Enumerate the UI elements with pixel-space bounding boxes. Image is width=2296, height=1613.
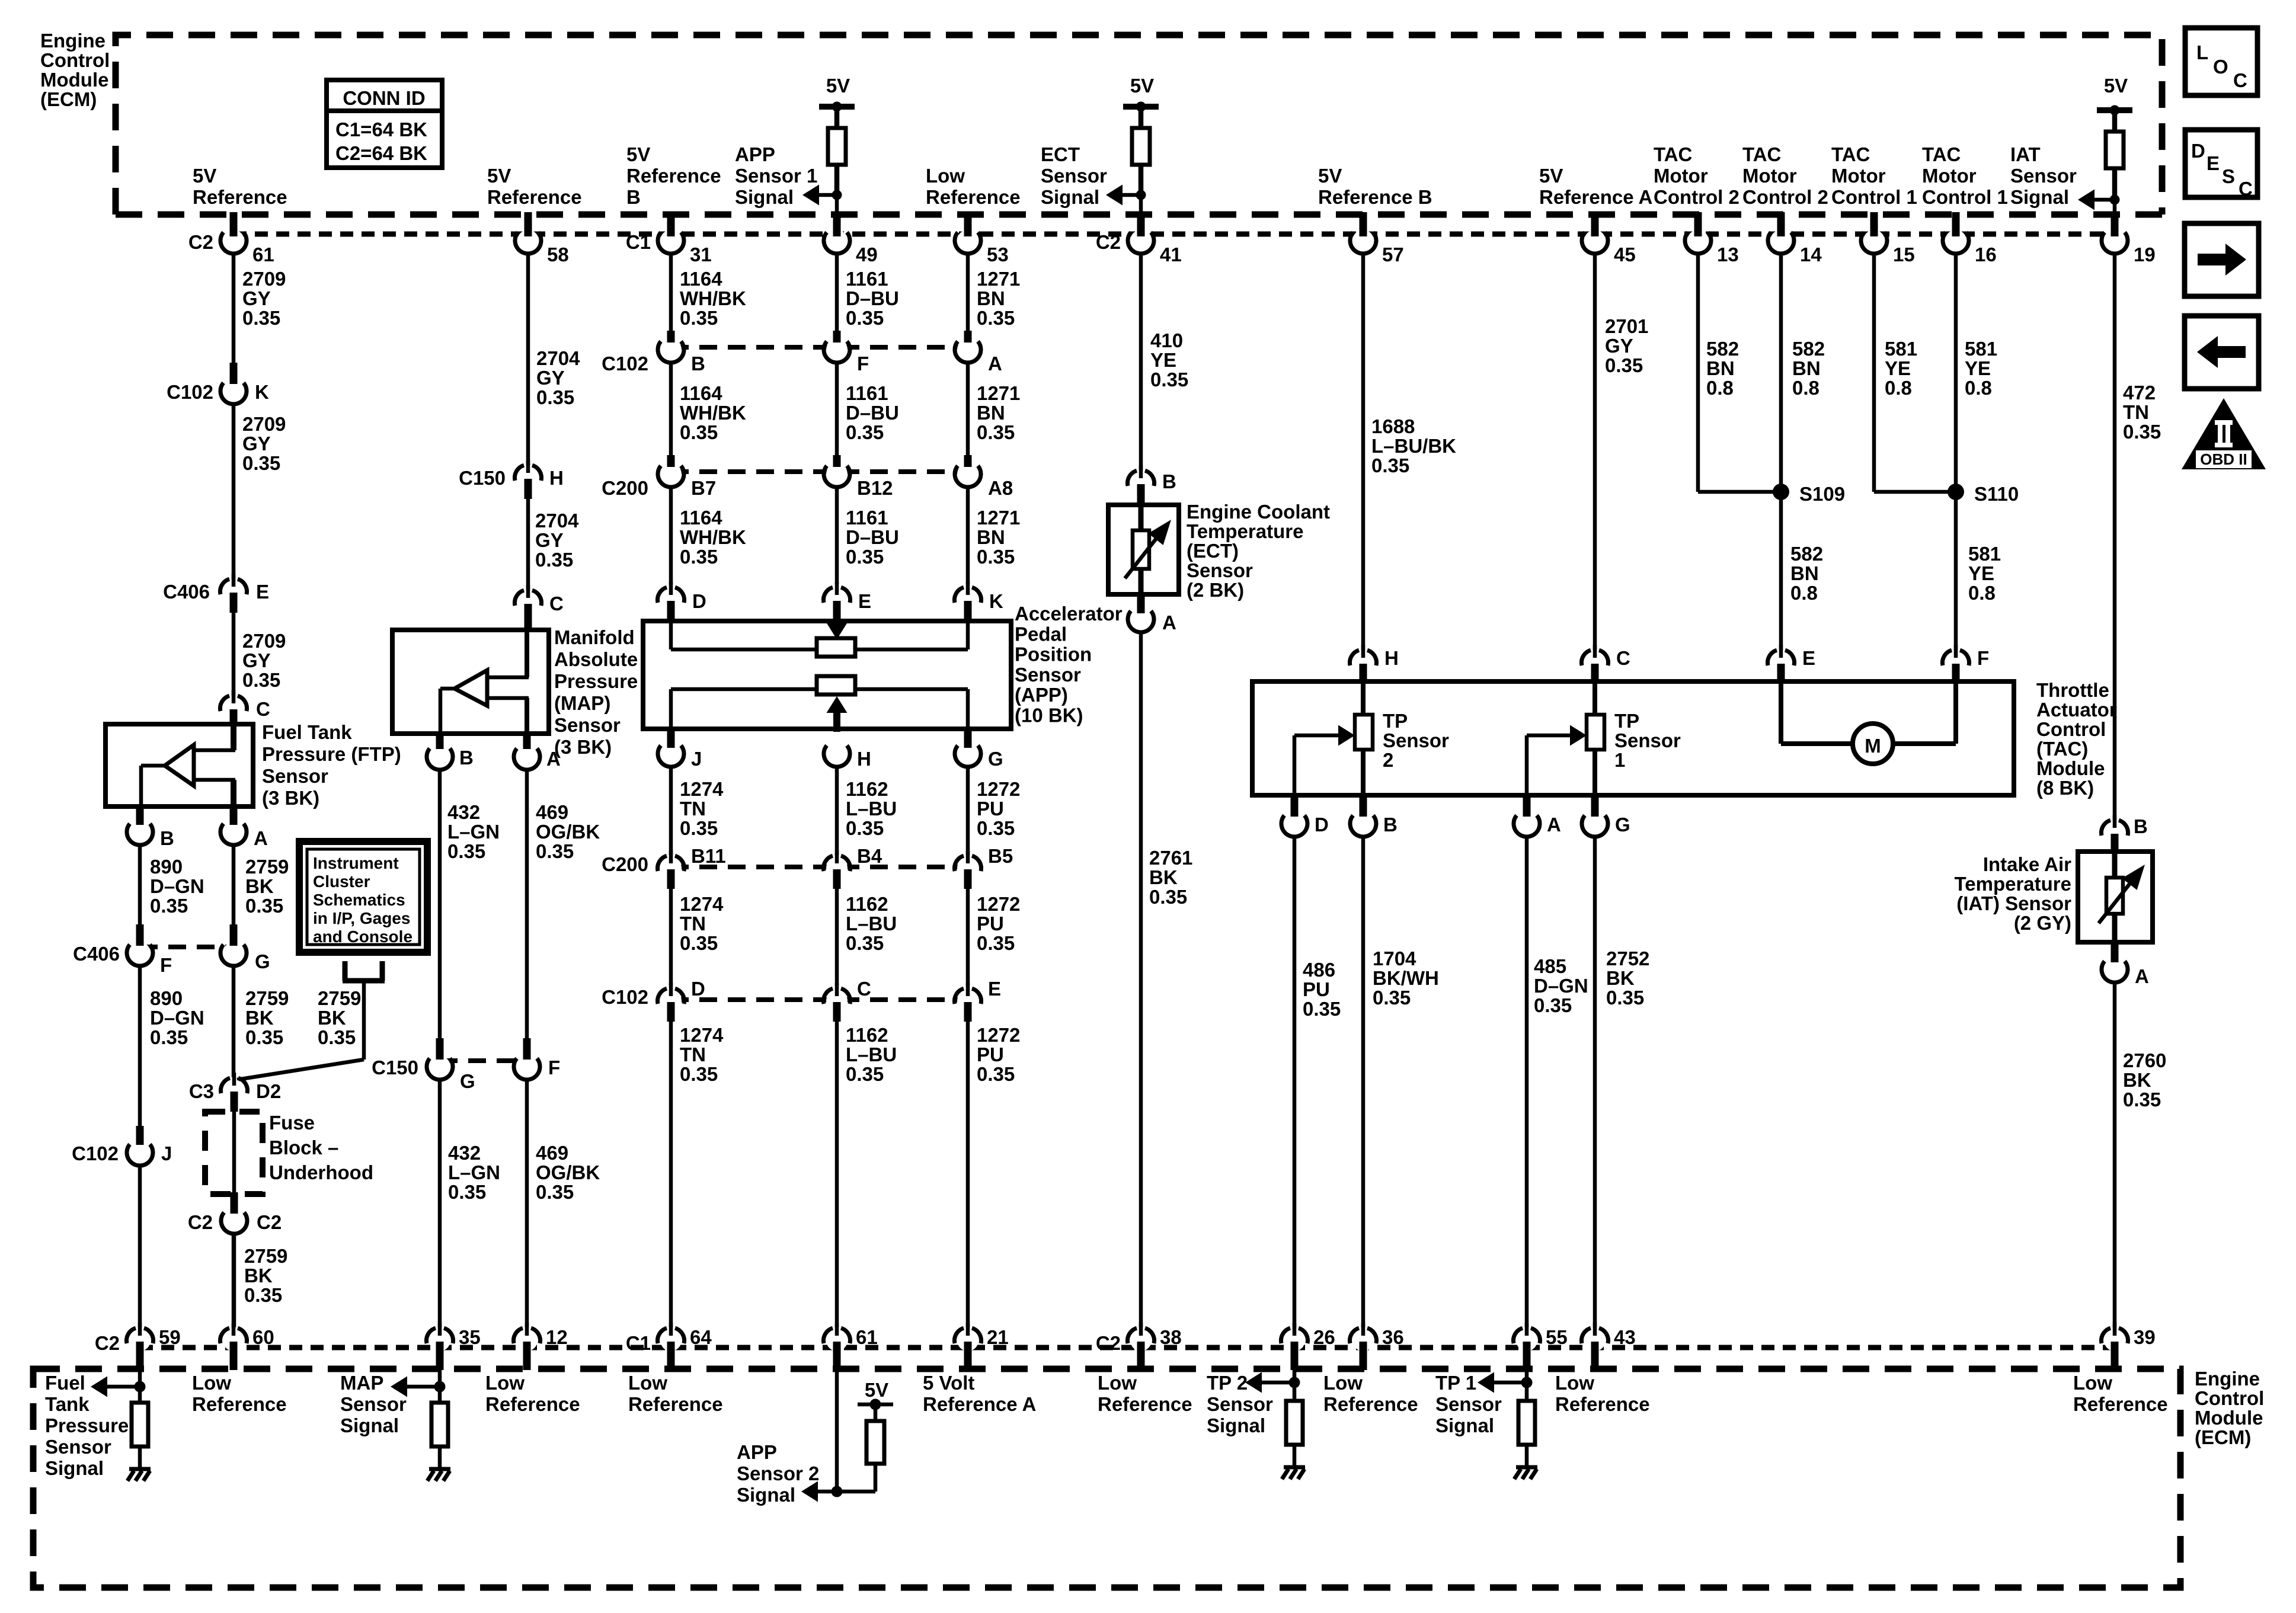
svg-text:5V: 5V [193, 165, 216, 187]
svg-text:(10 BK): (10 BK) [1015, 705, 1083, 727]
ground MAP signal [429, 1467, 450, 1471]
svg-text:E: E [1802, 647, 1815, 669]
connector C200 pin A8 [957, 463, 978, 485]
svg-text:1272: 1272 [977, 1024, 1020, 1046]
svg-text:5V: 5V [2104, 75, 2128, 97]
wire MAP resistor to ground [438, 1446, 442, 1468]
TAC-G stub below [1591, 795, 1599, 817]
TAC-F stub [1952, 664, 1960, 683]
svg-text:0.35: 0.35 [447, 840, 485, 862]
svg-text:G: G [255, 950, 270, 972]
svg-text:0.35: 0.35 [1371, 455, 1409, 476]
svg-text:Reference: Reference [926, 186, 1021, 208]
svg-text:OBD II: OBD II [2200, 450, 2247, 468]
wire FTP resistor to ground [138, 1446, 142, 1468]
connector C102 pin C (row2) [826, 990, 848, 1012]
svg-text:0.8: 0.8 [1706, 377, 1734, 399]
svg-text:26: 26 [1313, 1326, 1335, 1348]
svg-text:Control 2: Control 2 [1654, 186, 1739, 208]
connector APP pin E [826, 589, 848, 610]
ECM bottom pin 26 stub [1291, 1342, 1299, 1370]
svg-text:TAC: TAC [1654, 143, 1692, 165]
ECM bottom connector pin 35 [429, 1330, 450, 1351]
wire 485 D-GN TAC-A to pin 55 [1525, 836, 1529, 1327]
svg-text:C3: C3 [189, 1080, 214, 1102]
wire 1272 C200 to C102 row 2 [966, 889, 970, 985]
svg-text:Reference: Reference [2073, 1393, 2168, 1415]
ECM pin 41 stub [1137, 212, 1145, 236]
wire 2709 GY pin61 to C102-K [232, 253, 236, 363]
svg-text:BN: BN [1792, 357, 1821, 379]
svg-text:Manifold: Manifold [554, 626, 635, 648]
svg-text:Sensor: Sensor [1435, 1393, 1502, 1415]
connector IAT pin A [2104, 959, 2125, 980]
svg-text:0.35: 0.35 [846, 307, 884, 329]
svg-text:Signal: Signal [1041, 186, 1099, 208]
svg-text:Pressure: Pressure [45, 1414, 129, 1436]
wire 486 PU TAC-D to pin 26 [1293, 836, 1297, 1327]
svg-text:C2: C2 [1096, 231, 1121, 253]
svg-text:Sensor: Sensor [1041, 165, 1107, 187]
svg-text:A: A [1162, 612, 1176, 633]
C150 G-F jumper dashed line [440, 1058, 528, 1063]
junction TP1 signal [1521, 1377, 1533, 1388]
svg-text:S110: S110 [1974, 483, 2019, 505]
svg-text:L–GN: L–GN [448, 1161, 500, 1183]
svg-text:5V: 5V [1539, 165, 1563, 187]
svg-text:C: C [2239, 178, 2253, 200]
svg-text:Throttle: Throttle [2036, 679, 2109, 701]
FTP-B stub [136, 806, 144, 825]
C200-B5 stub below [964, 869, 972, 889]
wire 2709 GY C102-K to C406-E [232, 404, 236, 579]
ECM connector pin 61 [223, 230, 244, 251]
ECM bottom pin 12 stub [523, 1342, 531, 1370]
wire 1164 pin to C102 row [669, 253, 673, 331]
ECM pin 61 stub [230, 212, 238, 236]
svg-text:MAP: MAP [340, 1372, 383, 1394]
svg-text:(8 BK): (8 BK) [2036, 777, 2094, 799]
svg-text:582: 582 [1790, 543, 1823, 565]
APP-K stub [964, 601, 972, 622]
svg-text:Motor: Motor [1742, 165, 1797, 187]
svg-text:E: E [2207, 152, 2220, 174]
svg-text:Motor: Motor [1654, 165, 1708, 187]
resistor TP2 signal [1286, 1401, 1303, 1445]
svg-text:432: 432 [447, 801, 480, 823]
svg-text:Underhood: Underhood [269, 1161, 373, 1183]
svg-text:1: 1 [1614, 749, 1625, 771]
svg-text:581: 581 [1885, 338, 1917, 360]
svg-text:59: 59 [159, 1326, 181, 1348]
FTP sensor internal circuit [231, 724, 236, 750]
C406-G stub [230, 924, 238, 946]
svg-text:469: 469 [536, 801, 568, 823]
svg-text:0.35: 0.35 [150, 895, 188, 917]
svg-text:Reference: Reference [487, 186, 582, 208]
wire 582 BN S109 to TAC-E [1779, 492, 1783, 650]
5V bus junction (IAT) [2110, 105, 2120, 116]
svg-text:TP 2: TP 2 [1207, 1372, 1248, 1394]
C406-F stub [136, 924, 144, 946]
5V bus junction (APP sensor 1) [832, 102, 842, 112]
wire junction down to pin (ECT) [1139, 195, 1143, 215]
svg-text:TAC: TAC [1742, 143, 1781, 165]
5V bus tick (IAT) [2097, 107, 2132, 113]
ECM connector pin 53 [957, 230, 978, 251]
svg-text:Signal: Signal [737, 1484, 795, 1506]
svg-text:432: 432 [448, 1142, 481, 1164]
wire 2759 BK through fuse block [232, 1112, 236, 1192]
svg-text:C: C [857, 978, 871, 1000]
svg-text:Control: Control [2195, 1387, 2264, 1409]
svg-text:Sensor 2: Sensor 2 [737, 1462, 819, 1484]
svg-text:0.35: 0.35 [846, 932, 884, 954]
wire 890 D-GN C406-F to C102-J [138, 965, 142, 1126]
ECM bottom pin 35 stub [436, 1342, 444, 1370]
FTP sensor box [105, 724, 253, 806]
svg-text:Sensor: Sensor [554, 714, 621, 736]
svg-text:PU: PU [1303, 978, 1330, 1000]
svg-text:0.35: 0.35 [448, 1181, 486, 1203]
svg-text:57: 57 [1382, 244, 1404, 265]
APP sensor box [643, 621, 1011, 729]
svg-text:5V: 5V [626, 143, 650, 165]
svg-text:(ECM): (ECM) [2195, 1426, 2251, 1448]
pull-up resistor (APP sensor 1) [828, 128, 846, 165]
svg-text:2: 2 [1383, 749, 1393, 771]
TAC-D stub below [1291, 795, 1299, 817]
svg-text:O: O [2213, 56, 2228, 78]
wire 1272 C102 to ECM bottom [966, 1022, 970, 1327]
ECM bottom pin 60 stub [230, 1342, 238, 1370]
pull-up resistor (IAT) [2106, 132, 2124, 168]
svg-text:Actuator: Actuator [2036, 699, 2117, 721]
wire 582 BN pin13 to S109 [1696, 253, 1700, 492]
svg-text:Signal: Signal [1435, 1414, 1494, 1436]
IAT-A stub [2111, 942, 2119, 962]
wire 1164 C200 to APP connector [669, 487, 673, 584]
ECM bottom connector pin 59 [129, 1330, 151, 1351]
svg-text:C150: C150 [459, 467, 506, 489]
wire 1704 BK/WH TAC-B to pin 36 [1361, 836, 1366, 1327]
svg-text:31: 31 [690, 244, 712, 265]
wire APP2 resistor to 5V [874, 1404, 878, 1421]
svg-text:1274: 1274 [680, 1024, 724, 1046]
svg-text:J: J [691, 748, 702, 770]
5V bus junction (ECT) [1136, 102, 1146, 112]
svg-text:16: 16 [1975, 244, 1997, 265]
MAP-B stub [436, 734, 444, 749]
C102-K stub [230, 363, 238, 384]
svg-text:61: 61 [856, 1326, 878, 1348]
APP-E stub [833, 601, 841, 622]
svg-text:Engine: Engine [2195, 1368, 2260, 1390]
wire 1162 APP to C200 row 2 [835, 766, 839, 855]
svg-text:F: F [548, 1057, 560, 1078]
svg-text:C2: C2 [188, 231, 213, 253]
svg-text:581: 581 [1965, 338, 1997, 360]
svg-text:BK: BK [2123, 1069, 2151, 1091]
ECM bottom pin 61 stub [833, 1342, 841, 1370]
connector C102 pin E (row2) [957, 990, 978, 1012]
arrow TP 1 Sensor Signal [1478, 1372, 1494, 1393]
connector APP pin G [957, 743, 978, 764]
wire 1272 APP to C200 row 2 [966, 766, 970, 855]
svg-text:38: 38 [1160, 1326, 1182, 1348]
svg-text:0.35: 0.35 [846, 817, 884, 839]
svg-text:1271: 1271 [977, 382, 1020, 404]
svg-text:1164: 1164 [680, 507, 722, 529]
FTP-C stub [230, 709, 238, 727]
connector TAC pin B [1352, 813, 1374, 834]
svg-text:Pedal: Pedal [1015, 623, 1067, 645]
svg-text:1274: 1274 [680, 893, 724, 915]
connector C150 pin G [429, 1056, 450, 1077]
FTP-A stub [230, 806, 238, 825]
svg-text:Reference: Reference [485, 1393, 580, 1415]
svg-text:TP: TP [1383, 710, 1408, 732]
svg-text:Control: Control [2036, 718, 2106, 740]
ECM bottom pin 38 stub [1137, 1342, 1145, 1370]
resistor TP1 signal [1518, 1401, 1535, 1445]
ECM bottom connector row dotted line [140, 1345, 2115, 1350]
ECM connector pin 45 [1584, 230, 1606, 251]
wire 5V to resistor (IAT) [2112, 110, 2118, 132]
wire 2709 GY C406-E to FTP-C [232, 613, 236, 696]
svg-text:GY: GY [242, 287, 271, 309]
svg-text:Sensor: Sensor [1187, 559, 1253, 581]
svg-text:39: 39 [2134, 1326, 2156, 1348]
C102 row 2 jumper dashed line (D-C-E) [671, 997, 968, 1002]
svg-text:C2: C2 [188, 1211, 213, 1233]
svg-text:WH/BK: WH/BK [680, 287, 746, 309]
ECM pin 45 stub [1591, 212, 1599, 236]
signal arrow (APP sensor 1) [802, 185, 819, 206]
ECM bottom pin 21 stub [964, 1342, 972, 1370]
signal arrow (ECT) [1106, 185, 1123, 206]
svg-text:L–BU/BK: L–BU/BK [1371, 435, 1456, 457]
connector C102 pin D (row2) [660, 990, 682, 1012]
connector TAC pin C [1584, 652, 1606, 673]
svg-text:890: 890 [150, 856, 183, 878]
svg-text:2709: 2709 [242, 413, 286, 435]
MAP sensor internal circuit [525, 630, 529, 677]
svg-text:YE: YE [1968, 562, 1994, 584]
wire 2760 BK IAT-A to pin 39 [2113, 982, 2117, 1327]
svg-text:BK: BK [318, 1007, 346, 1029]
svg-text:B11: B11 [691, 845, 726, 867]
svg-text:GY: GY [1605, 335, 1633, 357]
wire 2701 GY pin45 to TAC-C [1593, 253, 1597, 650]
connector C102 pin F [826, 339, 848, 360]
svg-text:0.35: 0.35 [244, 1284, 282, 1306]
junction TP2 signal [1289, 1377, 1300, 1388]
APP-G stub below [964, 729, 972, 748]
svg-text:BN: BN [977, 287, 1005, 309]
svg-text:5V: 5V [1318, 165, 1342, 187]
svg-text:C102: C102 [602, 986, 648, 1008]
TAC-A stub below [1523, 795, 1531, 817]
svg-text:D: D [2191, 140, 2205, 162]
C150-H stub [525, 479, 532, 499]
svg-text:A8: A8 [988, 477, 1013, 499]
svg-text:L–BU: L–BU [846, 913, 897, 934]
svg-text:B: B [2134, 815, 2148, 837]
connector APP pin D [660, 589, 682, 610]
ECM bottom connector pin 26 [1284, 1330, 1305, 1351]
ECM bottom connector pin 36 [1352, 1330, 1374, 1351]
svg-text:S: S [2222, 165, 2235, 187]
connector TAC pin H [1352, 652, 1374, 673]
TAC throttle motor M [1779, 681, 1783, 744]
ECM pin 49 stub [833, 212, 841, 236]
svg-text:Sensor: Sensor [1383, 729, 1449, 751]
svg-text:Fuse: Fuse [269, 1112, 315, 1134]
svg-text:D–GN: D–GN [150, 1007, 204, 1029]
wire 581 YE S110 to TAC-F [1954, 492, 1958, 650]
svg-text:Sensor: Sensor [45, 1436, 111, 1458]
svg-text:Control: Control [40, 49, 110, 71]
svg-text:Module: Module [2195, 1407, 2263, 1429]
svg-text:Signal: Signal [45, 1457, 104, 1479]
svg-text:0.35: 0.35 [150, 1026, 188, 1048]
svg-text:L–BU: L–BU [846, 1044, 897, 1065]
CONN ID box [327, 80, 442, 168]
svg-text:0.35: 0.35 [680, 817, 718, 839]
C200-A8 stub [964, 455, 972, 467]
connector TAC pin D [1284, 813, 1305, 834]
svg-text:2759: 2759 [244, 1245, 287, 1267]
wire pin 61 into ECM [835, 1370, 839, 1492]
wire 472 TN pin19 to IAT-B [2113, 253, 2117, 820]
svg-text:Signal: Signal [735, 186, 794, 208]
svg-text:C: C [256, 698, 270, 720]
svg-text:C102: C102 [72, 1142, 119, 1164]
IAT-B stub [2111, 834, 2119, 853]
svg-text:Control 2: Control 2 [1742, 186, 1828, 208]
svg-text:2701: 2701 [1605, 315, 1648, 337]
pull-up resistor (ECT) [1132, 128, 1150, 165]
APP-D stub [667, 601, 675, 622]
svg-text:0.35: 0.35 [846, 1063, 884, 1085]
svg-text:(IAT) Sensor: (IAT) Sensor [1956, 892, 2071, 914]
svg-text:(TAC): (TAC) [2036, 738, 2088, 760]
MAP-C stub [525, 604, 532, 632]
svg-text:A: A [988, 353, 1002, 375]
svg-text:D–BU: D–BU [846, 287, 899, 309]
svg-text:Position: Position [1015, 644, 1092, 665]
svg-text:(3 BK): (3 BK) [262, 787, 319, 809]
svg-text:58: 58 [547, 244, 569, 265]
svg-text:Low: Low [2073, 1372, 2112, 1394]
svg-text:ECT: ECT [1041, 143, 1080, 165]
svg-text:2752: 2752 [1606, 948, 1649, 969]
connector C2 pin C2 (inline) [223, 1210, 245, 1231]
wire 2752 BK TAC-G to pin 43 [1593, 836, 1597, 1327]
wire 1274 C200 to C102 row 2 [669, 889, 673, 985]
svg-text:61: 61 [252, 244, 274, 265]
svg-text:5V: 5V [487, 165, 511, 187]
svg-text:0.35: 0.35 [680, 421, 718, 443]
svg-text:TAC: TAC [1922, 143, 1961, 165]
connector C102 pin A [957, 339, 978, 360]
svg-text:PU: PU [977, 798, 1004, 820]
svg-text:TN: TN [2123, 401, 2149, 423]
svg-text:B5: B5 [988, 845, 1013, 867]
svg-text:Sensor: Sensor [1614, 729, 1681, 751]
svg-text:1162: 1162 [846, 893, 888, 915]
svg-text:Accelerator: Accelerator [1015, 603, 1123, 625]
svg-text:E: E [988, 978, 1001, 1000]
connector C406 pin E [223, 581, 244, 602]
connector C150 pin H [517, 467, 539, 488]
ECM connector pin 15 [1863, 230, 1885, 251]
ECM bottom pin 55 stub [1523, 1342, 1531, 1370]
svg-text:D–BU: D–BU [846, 402, 899, 424]
C200-B7 stub [667, 455, 675, 467]
svg-text:0.35: 0.35 [846, 546, 884, 568]
wire 1271 C200 to APP connector [966, 487, 970, 584]
wire junction down to pin (IAT) [2113, 200, 2117, 215]
svg-text:(APP): (APP) [1015, 684, 1068, 706]
wire 2759 BK FTP-A to C406-G [232, 844, 236, 924]
svg-text:and Console: and Console [313, 927, 412, 946]
wire 1274 APP to C200 row 2 [669, 766, 673, 855]
svg-text:0.35: 0.35 [977, 932, 1015, 954]
svg-text:D–GN: D–GN [1534, 975, 1588, 997]
svg-text:2759: 2759 [318, 987, 361, 1009]
svg-text:Reference: Reference [1098, 1393, 1192, 1415]
C102-E stub below [964, 1002, 972, 1022]
resistor APP sensor 2 (5V pullup) [866, 1421, 884, 1464]
svg-text:1272: 1272 [977, 778, 1020, 800]
back arrow legend box [2185, 316, 2259, 389]
connector FTP pin A [223, 821, 244, 843]
wire 1161 C200 to APP connector [835, 487, 839, 584]
wire 581 YE pin16 to S110 [1954, 253, 1958, 492]
wire 5V to resistor (APP sensor 1) [834, 107, 840, 128]
connector MAP pin B [429, 746, 450, 767]
svg-text:A: A [1547, 814, 1561, 836]
connector ECT pin A [1130, 609, 1152, 630]
ECT thermistor [1139, 505, 1144, 533]
TAC module box [1252, 681, 2014, 795]
5V bus tick (ECT) [1123, 104, 1159, 110]
svg-text:1161: 1161 [846, 507, 888, 529]
svg-text:Low: Low [926, 165, 965, 187]
svg-text:Sensor: Sensor [2010, 165, 2077, 187]
svg-text:C406: C406 [163, 581, 210, 603]
ECM pin 19 stub [2111, 212, 2119, 236]
5V bus tick (APP2) [858, 1403, 893, 1407]
splice S109 [1773, 484, 1789, 500]
svg-text:BN: BN [1790, 562, 1819, 584]
TAC-E stub [1777, 664, 1785, 683]
svg-text:C2: C2 [257, 1211, 282, 1233]
svg-text:0.35: 0.35 [977, 307, 1015, 329]
connector ECT pin B [1130, 472, 1152, 494]
ECM bottom connector pin 60 [223, 1330, 244, 1351]
C406-E stub [230, 593, 238, 613]
svg-text:Motor: Motor [1831, 165, 1886, 187]
svg-text:64: 64 [690, 1326, 712, 1348]
wire 582 BN pin14 to S109 [1779, 253, 1783, 492]
svg-text:(ECM): (ECM) [40, 88, 97, 110]
svg-text:2761: 2761 [1149, 847, 1192, 869]
ECM pin 58 stub [525, 212, 532, 236]
wire 1271 C102 to C200 row [966, 362, 970, 455]
